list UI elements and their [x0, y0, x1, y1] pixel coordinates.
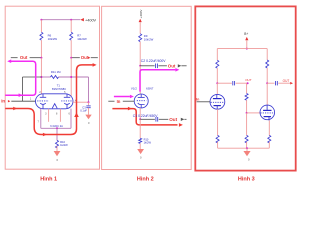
- tube right panel3: [260, 83, 275, 120]
- svg-text:1k/2W: 1k/2W: [60, 143, 68, 147]
- node grid tap: [246, 112, 248, 114]
- tube T1 envelope: [36, 83, 74, 108]
- resistor R9: [139, 34, 154, 66]
- wire heater pins: [49, 109, 61, 122]
- svg-text:10k/2W: 10k/2W: [144, 37, 154, 41]
- resistor plate right panel3: [266, 49, 269, 84]
- svg-text:OUT: OUT: [283, 79, 290, 83]
- svg-text:Hình 1: Hình 1: [40, 177, 57, 183]
- svg-text:In: In: [1, 99, 5, 104]
- svg-text:1k/2W: 1k/2W: [144, 140, 152, 144]
- node ground junction panel3: [246, 147, 248, 149]
- node junction bus right: [70, 19, 72, 21]
- node Out upper panel2: [168, 63, 187, 68]
- svg-text:Hình 3: Hình 3: [238, 177, 255, 183]
- resistor plate left panel3: [216, 49, 219, 84]
- node cathode junction: [56, 127, 58, 129]
- pin 7: [38, 120, 40, 123]
- heater value label: [50, 124, 63, 128]
- wire top bus: [41, 19, 80, 21]
- node C3 top: [88, 101, 90, 103]
- wire plate lead panel2: [139, 66, 141, 94]
- node In label: [1, 99, 10, 104]
- resistor R10: [56, 128, 69, 151]
- svg-text:+400V: +400V: [139, 10, 143, 19]
- node OUT panel3: [283, 79, 293, 85]
- node coupling junction: [245, 78, 252, 84]
- node plate right: [266, 82, 268, 84]
- svg-text:Out: Out: [20, 55, 28, 60]
- wire bottom bus panel3: [218, 147, 270, 149]
- svg-text:In: In: [117, 99, 121, 104]
- resistor cathode panel2: [139, 119, 152, 149]
- wire out left stub: [11, 57, 42, 59]
- node plate junction panel2: [139, 65, 141, 67]
- caption Hinh 2: [137, 177, 154, 183]
- resistor R7: [70, 20, 87, 58]
- annotation magenta out panel2: [140, 68, 179, 92]
- capacitor out panel3: [276, 81, 291, 85]
- node junction bus left: [40, 19, 42, 21]
- wire grid to right tube: [247, 112, 260, 114]
- node plate left: [216, 82, 218, 84]
- pin 5: [64, 91, 66, 94]
- capacitor coupling panel3: [233, 81, 248, 85]
- resistor grid leak panel3: [245, 113, 248, 148]
- tube T1 left triode elements: [37, 94, 49, 109]
- wire grid riser left: [23, 77, 42, 101]
- wire top bus panel3: [217, 48, 267, 50]
- node R11 right: [70, 76, 72, 78]
- capacitor C1 0.22uF/450V: [133, 114, 169, 122]
- panel 3 frame: [195, 6, 295, 170]
- node In panel3: [196, 98, 210, 102]
- wire C3 net: [88, 77, 90, 102]
- svg-text:Out: Out: [168, 63, 176, 68]
- svg-text:Hình 2: Hình 2: [137, 177, 154, 183]
- capacitor C2 0.22uF/400V: [141, 59, 167, 68]
- tube left panel3: [210, 83, 225, 109]
- wire In stub panel2: [108, 100, 134, 102]
- tube V1 panel2: [131, 87, 154, 108]
- svg-text:R11 1M: R11 1M: [51, 70, 61, 74]
- wire plate column right: [70, 58, 72, 96]
- resistor cathode right panel3: [268, 121, 271, 149]
- svg-text:Out: Out: [169, 117, 177, 122]
- pin 1: [30, 98, 32, 101]
- svg-text:6SN7: 6SN7: [146, 87, 154, 91]
- wire out right stub: [71, 57, 98, 59]
- svg-text:V1/2: V1/2: [131, 87, 137, 91]
- tube T1 right triode elements: [61, 94, 73, 109]
- node In label panel2: [117, 99, 121, 104]
- svg-text:+400V: +400V: [85, 18, 97, 22]
- node cathode junction panel2: [139, 118, 141, 120]
- pin 2: [39, 91, 41, 94]
- annotation magenta path panel1: [5, 59, 36, 97]
- svg-text:10k/2W: 10k/2W: [48, 37, 58, 41]
- svg-text:B+: B+: [244, 32, 248, 36]
- tube T1 heater: [52, 104, 57, 109]
- svg-text:OUT: OUT: [245, 78, 252, 82]
- svg-text:10k/2W: 10k/2W: [77, 37, 87, 41]
- ground main panel1: [54, 151, 61, 162]
- annotation red path panel1: [5, 63, 96, 136]
- panel 2 frame: [102, 6, 192, 169]
- resistor cathode left panel3: [216, 109, 219, 148]
- ground C3: [85, 115, 91, 125]
- node Out lower panel2: [169, 117, 186, 122]
- resistor grid panel3: [245, 83, 248, 113]
- annotation red path panel2: [112, 107, 182, 127]
- wire lower out branch: [140, 118, 155, 120]
- svg-text:0.1uF: 0.1uF: [80, 109, 87, 113]
- pin 6: [69, 112, 71, 115]
- svg-text:C1 0.22uF/450V: C1 0.22uF/450V: [133, 114, 158, 118]
- svg-text:In: In: [196, 98, 199, 102]
- pin 3: [45, 112, 47, 115]
- wire upper out branch: [140, 65, 154, 67]
- node R11 left: [40, 76, 42, 78]
- power +400V supply arrow: [80, 18, 96, 22]
- wire In stub: [11, 100, 35, 102]
- node Out left: [20, 55, 43, 60]
- svg-text:Out: Out: [81, 55, 89, 60]
- node Out right: [70, 55, 90, 60]
- caption Hinh 1: [40, 177, 57, 183]
- wire cathode box: [41, 109, 71, 129]
- svg-text:T1: T1: [57, 83, 61, 87]
- capacitor C3: [80, 102, 91, 114]
- power B+: [244, 32, 248, 49]
- svg-text:6SN7/6N8C: 6SN7/6N8C: [52, 87, 66, 91]
- ground panel3: [243, 148, 250, 161]
- ground panel2: [137, 149, 144, 160]
- wire cathode column panel2: [139, 108, 141, 119]
- wire right out branch: [267, 82, 274, 84]
- pin 4: [75, 99, 77, 102]
- resistor R11: [41, 70, 88, 78]
- wire grid right external: [73, 101, 89, 103]
- pin 8: [56, 112, 58, 115]
- wire plate column left: [40, 58, 42, 94]
- svg-text:C2 0.22uF/400V: C2 0.22uF/400V: [141, 59, 166, 63]
- power +400V panel2: [139, 10, 143, 34]
- node B+ junction: [246, 48, 248, 50]
- panel 1 frame: [5, 6, 99, 169]
- wire coupling branch: [217, 82, 232, 84]
- annotation magenta in panel2: [114, 95, 134, 99]
- resistor R6: [40, 20, 58, 58]
- caption Hinh 3: [238, 177, 255, 183]
